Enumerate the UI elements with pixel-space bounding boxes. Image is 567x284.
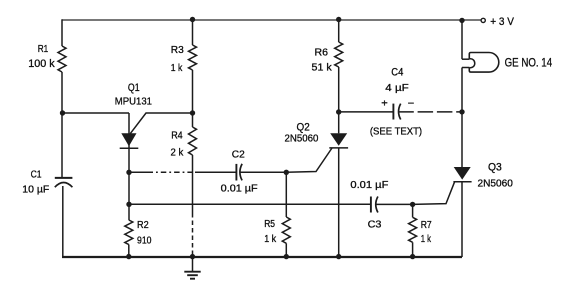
svg-text:Q1: Q1 [128,82,140,94]
svg-text:2N5060: 2N5060 [285,132,319,144]
svg-text:C1: C1 [31,168,42,180]
svg-text:1 k: 1 k [264,233,277,245]
svg-text:C3: C3 [368,218,382,230]
svg-text:C2: C2 [232,148,245,160]
svg-text:R4: R4 [171,130,183,142]
svg-text:1 k: 1 k [421,233,432,245]
svg-text:R2: R2 [137,219,149,231]
svg-text:Q3: Q3 [488,161,502,173]
svg-text:2N5060: 2N5060 [478,177,513,189]
svg-text:R1: R1 [38,43,49,55]
svg-text:MPU131: MPU131 [115,96,152,108]
svg-text:GE NO. 14: GE NO. 14 [505,56,553,70]
svg-text:0.01 µF: 0.01 µF [221,183,258,195]
svg-text:R6: R6 [315,47,329,59]
svg-text:+ 3 V: + 3 V [490,16,514,28]
svg-text:R5: R5 [264,218,275,230]
svg-text:910: 910 [137,234,152,246]
svg-text:10 µF: 10 µF [22,184,49,196]
svg-text:51 k: 51 k [312,62,333,74]
svg-text:(SEE TEXT): (SEE TEXT) [370,125,422,137]
svg-text:−: − [408,99,415,110]
svg-text:+: + [381,99,388,110]
svg-text:R7: R7 [421,219,432,231]
svg-text:C4: C4 [391,66,403,78]
svg-text:2 k: 2 k [171,146,184,158]
svg-text:100 k: 100 k [28,58,55,70]
svg-text:1 k: 1 k [171,62,183,74]
svg-text:R3: R3 [171,44,184,56]
svg-text:4 µF: 4 µF [385,82,408,94]
svg-text:0.01 µF: 0.01 µF [350,179,388,191]
